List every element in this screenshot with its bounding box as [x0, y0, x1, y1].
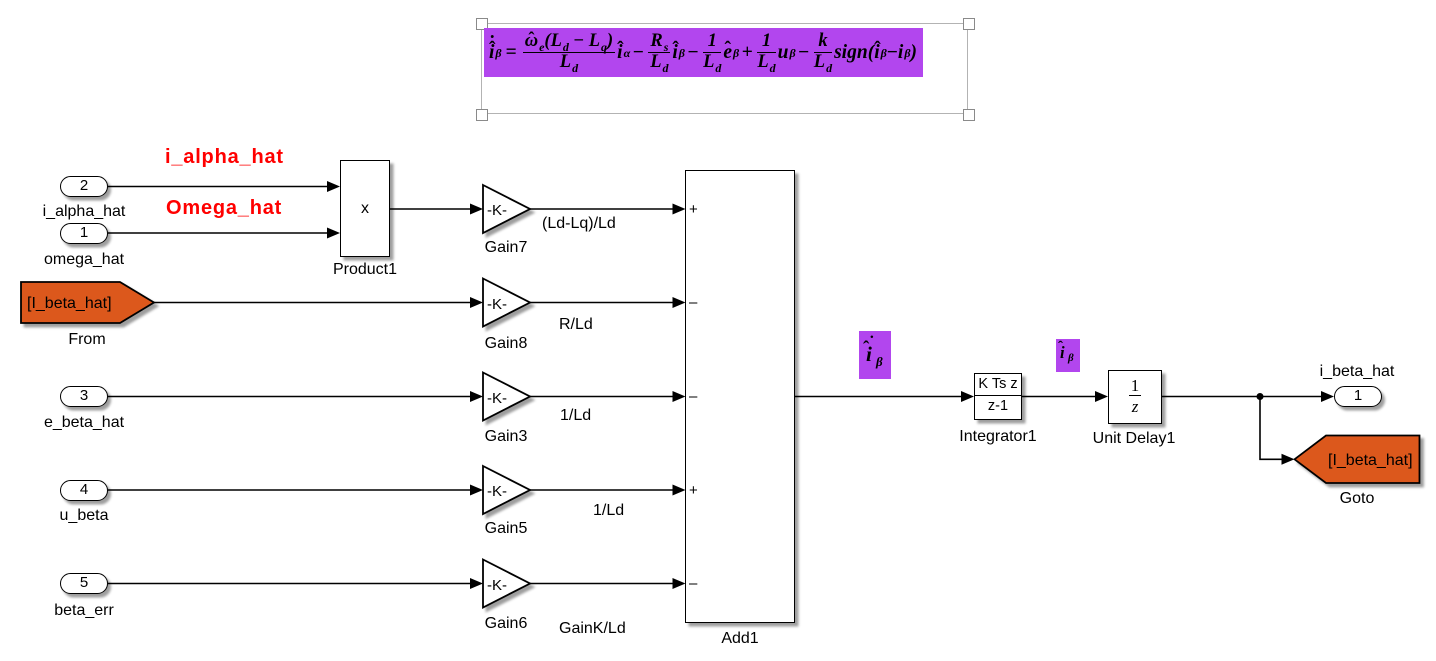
purple annotation i_beta_hat_dot: [859, 331, 891, 379]
wire port 5 to Gain6: [108, 578, 483, 589]
product label Product1: [315, 261, 415, 279]
selection frame: [481, 23, 968, 114]
gain value 1/Ld: [560, 407, 591, 425]
inport 4 label u_beta: [42, 507, 126, 525]
annotation Omega_hat red: [166, 197, 282, 220]
wire Gain3 to Add1: [530, 391, 686, 402]
add sign minus 3: [689, 388, 697, 405]
from tag I_beta_hat: [21, 282, 154, 323]
gain Gain3: [483, 373, 530, 421]
gain label Gain3: [466, 428, 546, 446]
gain label Gain8: [466, 335, 546, 353]
gain Gain6: [483, 560, 530, 608]
inport 3: [60, 386, 108, 407]
gain label Gain7: [466, 239, 546, 257]
inport 5: [60, 573, 108, 594]
integrator label Integrator1: [948, 428, 1048, 446]
purple annotation i_beta_hat: [1056, 339, 1080, 372]
gain -K- text Gain6: [484, 577, 510, 594]
gain -K- text Gain8: [484, 296, 510, 313]
product block Product1: [340, 160, 390, 257]
inport 1: [60, 223, 108, 244]
inport 4: [60, 480, 108, 501]
add sign plus 1: [689, 201, 698, 218]
goto tag I_beta_hat: [1295, 436, 1420, 484]
add sign plus 4: [689, 482, 698, 499]
selection handle bottom-left: [476, 109, 488, 121]
wire Gain6 to Add1: [530, 578, 686, 589]
wire Integrator1 to Unit Delay1: [1022, 391, 1108, 402]
wire port 1 to Product1: [108, 228, 340, 239]
inport 5 label beta_err: [42, 602, 126, 620]
gain value R/Ld: [559, 316, 593, 334]
gain -K- text Gain3: [484, 390, 510, 407]
wire Add1 to Integrator1: [795, 391, 974, 402]
wire port 2 to Product1: [108, 181, 340, 192]
equation annotation: [484, 28, 923, 77]
inport 2 label i_alpha_hat: [42, 203, 126, 221]
goto tag text: [1328, 452, 1413, 470]
goto label: [1317, 490, 1397, 508]
wire Gain8 to Add1: [530, 297, 686, 308]
selection handle top-right: [963, 18, 975, 30]
add sign minus 5: [689, 575, 697, 592]
outport 1: [1334, 386, 1382, 407]
inport 2: [60, 176, 108, 197]
unit delay block Unit Delay1: [1108, 370, 1162, 424]
gain value (Ld-Lq)/Ld: [542, 215, 616, 233]
wire port 3 to Gain3: [108, 391, 483, 402]
from tag text: [27, 295, 112, 313]
add label Add1: [690, 630, 790, 648]
gain label Gain6: [466, 615, 546, 633]
inport 1 label omega_hat: [42, 251, 126, 269]
junction dot: [1257, 393, 1264, 400]
unit delay label Unit Delay1: [1084, 430, 1184, 448]
from label: [47, 331, 127, 349]
wire From to Gain8: [154, 297, 483, 308]
outport label i_beta_hat: [1315, 363, 1399, 381]
gain value 1/Ld second: [593, 502, 624, 520]
wire Unit Delay1 to out port 1: [1162, 391, 1334, 402]
gain -K- text Gain7: [484, 202, 510, 219]
add block Add1: [685, 170, 795, 624]
inport 3 label e_beta_hat: [42, 414, 126, 432]
gain Gain8: [483, 279, 530, 327]
wire Gain5 to Add1: [530, 485, 686, 496]
integrator block Integrator1: [974, 373, 1022, 420]
annotation i_alpha_hat red: [165, 146, 284, 169]
add sign minus 2: [689, 294, 697, 311]
gain -K- text Gain5: [484, 483, 510, 500]
selection handle top-left: [476, 18, 488, 30]
gain label Gain5: [466, 520, 546, 538]
wire Gain7 to Add1: [530, 204, 686, 215]
selection handle bottom-right: [963, 109, 975, 121]
wire Product1 to Gain7: [390, 204, 483, 215]
gain value GainK/Ld: [559, 620, 626, 638]
wire branch to Goto: [1260, 397, 1295, 465]
gain Gain5: [483, 466, 530, 514]
wire port 4 to Gain5: [108, 485, 483, 496]
gain Gain7: [483, 185, 530, 233]
